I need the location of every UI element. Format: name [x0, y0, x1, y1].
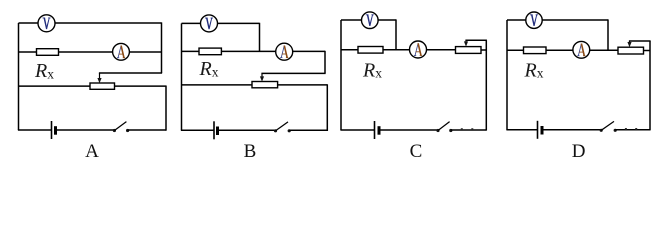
switch (circuit A)	[113, 122, 129, 132]
wire: slider top wire (circuit D)	[629, 40, 651, 42]
wire: left vertical bus of circuit C	[340, 20, 342, 130]
rheostat body (circuit B)	[252, 82, 278, 88]
wire: bottom branch left segment (circuit D)	[506, 129, 537, 131]
ammeter A (circuit D)	[573, 41, 590, 58]
rheostat slider arrow (circuit D)	[627, 41, 631, 47]
wire: bottom branch middle segment (circuit D)	[542, 129, 601, 131]
wire: bottom branch right segment (circuit A)	[128, 129, 166, 131]
wire: right vertical from rheostat to battery line (circuit B)	[326, 84, 328, 131]
wire: right vertical of circuit C	[485, 40, 487, 130]
wire: left vertical bus of circuit A	[18, 23, 20, 130]
wire: bottom branch middle segment (circuit B)	[218, 129, 276, 131]
wire: rheostat right end connector (circuit C)	[481, 49, 486, 51]
wire: voltmeter drop to node between ammeter and rheostat (circuit D)	[607, 19, 609, 50]
wire: top branch of circuit B (voltmeter branch)	[182, 22, 260, 24]
rheostat slider arrow (circuit B)	[260, 73, 264, 81]
resistor Rx (circuit D)	[524, 47, 547, 54]
junction tick marks on wire (circuit C)	[461, 128, 474, 130]
wire: bottom branch left segment (circuit B)	[181, 129, 214, 131]
wire: bottom branch left segment (circuit C)	[340, 129, 374, 131]
wire: middle branch of circuit C (Rx, ammeter, rheostat)	[341, 49, 456, 51]
wire: right vertical joining V and A branches down to slider (circuit A)	[161, 22, 163, 73]
wire: top branch of circuit A (voltmeter branch)	[19, 22, 162, 24]
wire: bottom branch middle segment (circuit C)	[379, 129, 438, 131]
resistor Rx (circuit C)	[358, 47, 383, 54]
wire: slider feed wire (circuit B)	[261, 72, 325, 74]
wire: middle branch of circuit B (Rx and ammeter)	[182, 50, 326, 52]
svg-text:C: C	[410, 141, 423, 162]
rheostat slider arrow (circuit A)	[97, 73, 101, 83]
svg-text:B: B	[244, 141, 257, 162]
junction tick marks on wire (circuit D)	[625, 128, 637, 130]
wire: bottom branch left segment (circuit A)	[18, 129, 52, 131]
wire: left vertical bus of circuit B	[181, 23, 183, 130]
wire: bottom branch middle segment (circuit A)	[56, 129, 115, 131]
wire: voltmeter drop to node between Rx and ammeter (circuit B)	[259, 23, 261, 52]
wire: voltmeter drop to node between Rx and ammeter (circuit C)	[395, 19, 397, 49]
rheostat body (circuit C)	[456, 47, 482, 54]
wire: slider feed wire (circuit A)	[99, 72, 162, 74]
wire: middle branch of circuit A (Rx and ammeter)	[19, 51, 162, 53]
wire: right vertical of circuit D	[649, 41, 651, 130]
wire: top branch of circuit C (voltmeter branch)	[341, 19, 396, 21]
wire: slider top wire (circuit C)	[465, 39, 487, 41]
resistor Rx (circuit A)	[37, 49, 59, 56]
voltmeter V (circuit D)	[526, 12, 542, 28]
svg-text:D: D	[572, 141, 586, 162]
rheostat body (circuit D)	[618, 47, 644, 54]
battery (circuit D)	[538, 121, 543, 139]
wire: top branch of circuit D (voltmeter branch)	[507, 19, 608, 21]
switch (circuit C)	[436, 122, 452, 132]
wire: right vertical from rheostat to battery line (circuit A)	[165, 86, 167, 131]
rheostat body (circuit A)	[90, 83, 115, 89]
ammeter A (circuit B)	[276, 43, 293, 60]
battery (circuit A)	[52, 121, 56, 139]
wire: bottom branch right segment (circuit D)	[615, 129, 650, 131]
wire: right vertical from ammeter branch down to slider wire (circuit B)	[324, 51, 326, 74]
wire: middle branch of circuit D (Rx, ammeter, rheostat)	[507, 49, 618, 51]
switch (circuit B)	[274, 122, 291, 132]
svg-text:A: A	[85, 141, 99, 162]
wire: rheostat branch of circuit B	[182, 84, 328, 86]
voltmeter V (circuit C)	[362, 12, 379, 29]
rheostat slider arrow (circuit C)	[464, 40, 468, 46]
voltmeter V (circuit A)	[38, 15, 55, 32]
resistor Rx (circuit B)	[199, 48, 221, 55]
switch (circuit D)	[600, 121, 617, 131]
wire: bottom branch right segment (circuit C)	[451, 129, 487, 131]
wire: bottom branch right segment (circuit B)	[289, 129, 327, 131]
ammeter A (circuit C)	[410, 41, 427, 58]
wire: left vertical bus of circuit D	[506, 20, 508, 130]
ammeter A (circuit A)	[113, 43, 130, 60]
voltmeter V (circuit B)	[201, 15, 218, 32]
battery (circuit C)	[375, 121, 380, 139]
battery (circuit B)	[214, 121, 218, 139]
wire: rheostat right end connector (circuit D)	[644, 50, 651, 52]
wire: rheostat branch of circuit A	[19, 85, 167, 87]
